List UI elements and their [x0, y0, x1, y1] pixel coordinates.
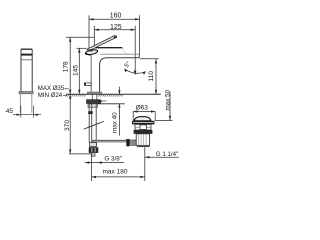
supply fitting G3/8	[89, 148, 98, 153]
side view cap dark band	[21, 54, 32, 56]
dimension 45	[13, 106, 41, 118]
fitting stub	[91, 153, 95, 157]
side view lower shank	[20, 94, 31, 113]
tube coupling	[88, 111, 93, 114]
drain lower body with thread	[136, 134, 149, 147]
dimension 125	[94, 26, 136, 75]
cartridge cap	[85, 49, 98, 55]
label G 1 1/4" with leader	[145, 156, 179, 158]
dimension max 180	[92, 147, 145, 181]
rod drain connector	[130, 140, 137, 145]
svg-text:125: 125	[110, 24, 122, 31]
drain flange	[132, 121, 154, 125]
svg-text:Ø63: Ø63	[136, 104, 149, 111]
spout end extension line	[140, 58, 159, 60]
drain upper body	[135, 124, 151, 130]
svg-text:max 180: max 180	[103, 168, 128, 175]
nut side band	[98, 100, 102, 102]
lever joint shadow	[87, 49, 92, 52]
svg-text:178: 178	[62, 61, 69, 72]
dimension 178	[66, 37, 94, 94]
side view cylinder body	[21, 49, 32, 91]
dimension 110	[155, 59, 157, 94]
dimension 160	[89, 15, 140, 54]
svg-text:max 50: max 50	[164, 89, 171, 110]
tube end coupling box	[90, 143, 97, 147]
side view ring line	[21, 59, 32, 61]
body left protrusion	[84, 83, 91, 86]
pipe break marks	[84, 121, 104, 129]
rod clevis	[126, 139, 129, 146]
svg-text:MIN Ø24: MIN Ø24	[38, 92, 63, 99]
counter bottom line	[97, 103, 125, 105]
leader ticks for hole size labels	[63, 89, 69, 96]
bracket box below nut	[88, 104, 97, 107]
lever inner highlight	[91, 38, 113, 49]
5 degree arc annotation	[124, 69, 145, 75]
drain dome cap	[134, 117, 151, 121]
mounting nut	[87, 100, 101, 104]
countertop hatching right	[98, 94, 123, 96]
dimension max 50	[155, 92, 173, 121]
base flange front view	[88, 92, 102, 94]
lever handle	[87, 36, 117, 51]
side view base flange	[19, 92, 33, 94]
faucet body outline front view	[91, 48, 139, 92]
svg-text:370: 370	[64, 120, 71, 131]
riser tube	[89, 104, 92, 143]
svg-text:110: 110	[148, 71, 155, 82]
shank below counter	[92, 94, 97, 99]
label G 3/8" with leader	[85, 161, 124, 163]
drain lock nut	[134, 130, 153, 134]
svg-text:45: 45	[6, 108, 14, 115]
dimension diameter 63	[133, 110, 155, 120]
svg-text:MAX Ø35: MAX Ø35	[38, 85, 65, 92]
drain pin	[140, 125, 147, 130]
svg-text:145: 145	[73, 65, 80, 76]
dimension 145	[77, 48, 87, 94]
svg-text:G 3/8": G 3/8"	[104, 156, 122, 163]
pop-up rod horizontal	[92, 140, 127, 142]
svg-text:G 1 1/4": G 1 1/4"	[156, 151, 179, 158]
countertop hatching left	[65, 94, 86, 96]
lever tip	[114, 36, 117, 39]
dimension max 40	[118, 87, 120, 136]
svg-text:160: 160	[110, 13, 122, 20]
pop-up rod vertical	[95, 104, 97, 141]
dimension 370	[69, 94, 91, 154]
countertop line	[66, 93, 161, 95]
svg-text:max 40: max 40	[112, 112, 119, 133]
